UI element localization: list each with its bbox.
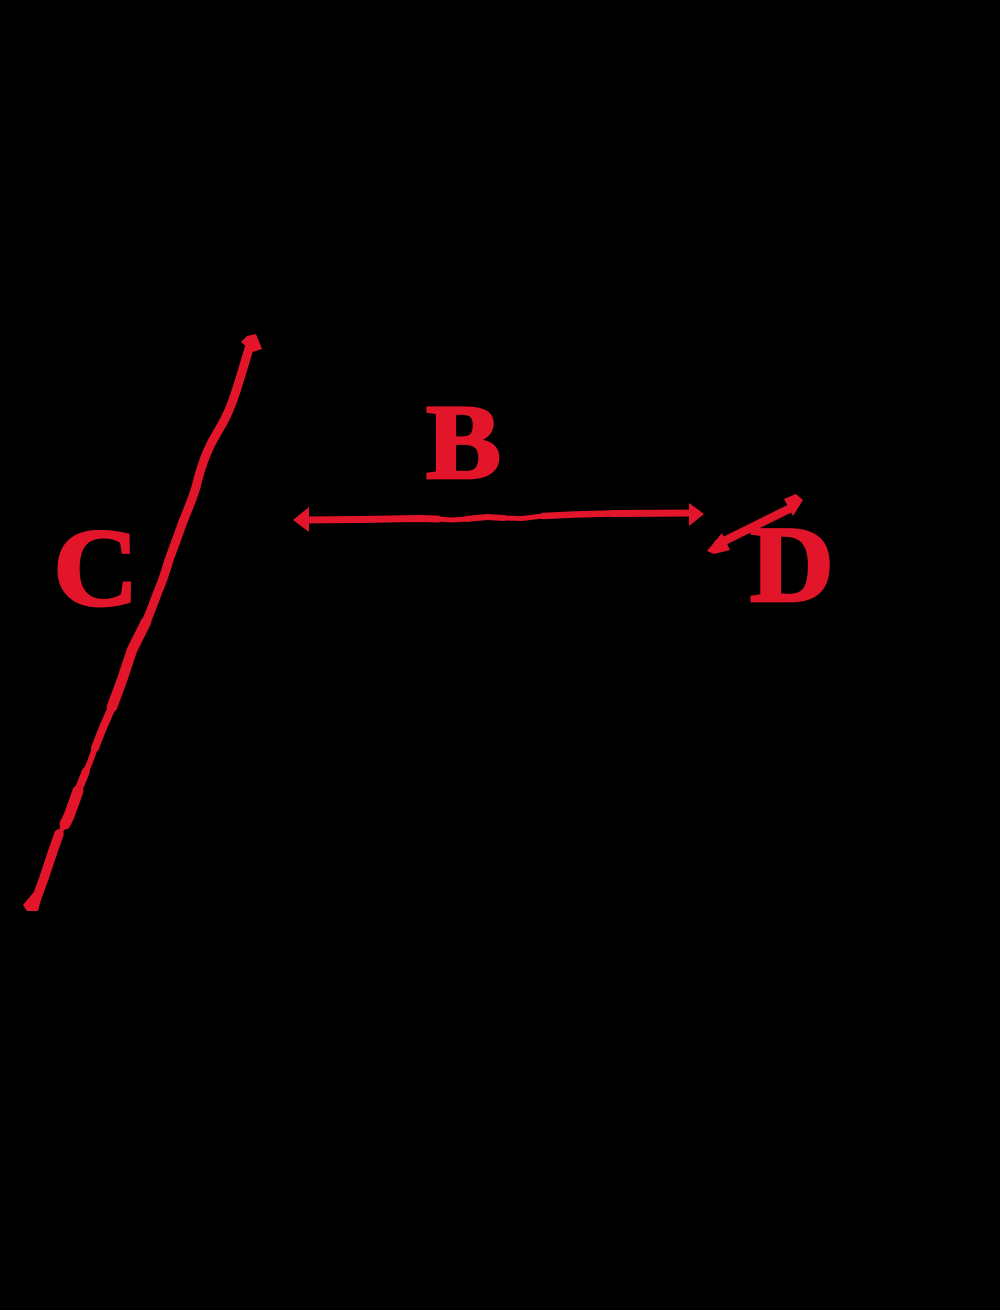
label B	[426, 382, 501, 501]
label D	[750, 505, 834, 625]
arrowhead C bottom	[23, 893, 42, 911]
arrowhead B left	[293, 507, 309, 532]
segment B line	[300, 513, 697, 520]
arrowhead D bottom-left	[707, 533, 730, 554]
segment D line	[716, 507, 793, 545]
arrowhead D top-right	[784, 494, 803, 516]
arrowhead C top	[241, 334, 262, 352]
segment C line	[37, 345, 250, 897]
arrowhead B right	[689, 503, 704, 526]
svg-text:B: B	[426, 382, 501, 501]
svg-text:D: D	[750, 505, 834, 625]
svg-text:C: C	[53, 506, 138, 629]
label C	[53, 506, 138, 629]
